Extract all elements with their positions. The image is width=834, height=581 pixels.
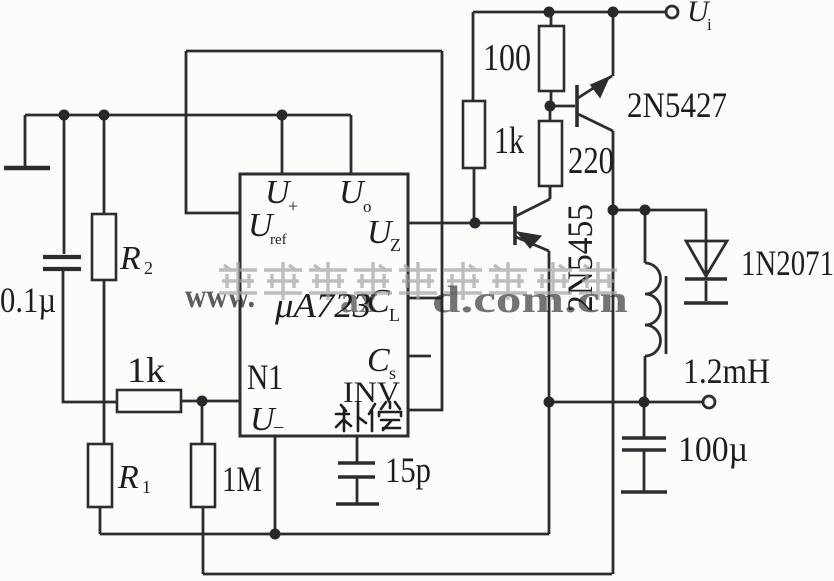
wire node to 1M	[201, 401, 204, 444]
resistor 1M	[191, 444, 215, 507]
wire CL stub	[408, 297, 442, 300]
wire output rail	[549, 401, 702, 404]
capacitor 0.1u	[63, 115, 66, 254]
transistor Q1 2N5427	[575, 85, 579, 127]
svg-text:100µ: 100µ	[678, 429, 748, 469]
junction top rail / R100	[544, 7, 555, 18]
wire CS stub	[408, 355, 431, 358]
svg-text:1: 1	[142, 477, 151, 497]
svg-text:www.: www.	[185, 278, 255, 315]
junction output rail / Q2 emitter	[544, 397, 555, 408]
wire top rail to Ui	[473, 11, 665, 14]
svg-text:Z: Z	[390, 235, 401, 255]
svg-text:L: L	[389, 305, 400, 325]
wire mid rail to diode	[613, 209, 707, 212]
wire Q1 collector long vertical	[612, 131, 615, 574]
node dots	[59, 7, 651, 540]
watermark	[185, 262, 628, 321]
diode 1N2071	[705, 210, 708, 279]
svg-text:2N5427: 2N5427	[627, 85, 727, 125]
resistor 220	[549, 106, 552, 121]
wire bottom rail 2	[203, 573, 612, 576]
ground	[24, 115, 27, 167]
svg-text:R: R	[119, 240, 141, 277]
svg-text:1.2mH: 1.2mH	[683, 351, 770, 391]
svg-text:U: U	[339, 174, 366, 211]
wire Uref-INV link vertical	[408, 51, 442, 410]
capacitor 15p	[356, 436, 359, 462]
svg-text:2: 2	[144, 258, 153, 278]
junction ground rail / U+ pin	[277, 110, 288, 121]
op-amp U1 box uA723	[240, 174, 408, 436]
inductor L1 1.2mH	[644, 210, 647, 263]
junction ground rail / R2	[99, 110, 110, 121]
transistor Q2 2N5455	[513, 206, 517, 245]
resistor 1k (horizontal)	[117, 390, 181, 412]
terminal output	[703, 396, 715, 408]
junction top rail / Q1 emitter	[608, 7, 619, 18]
junction box pin / rail 1	[270, 529, 281, 540]
wire R2 to R1	[103, 280, 106, 444]
svg-text:0.1µ: 0.1µ	[0, 280, 56, 320]
junction output rail / L1 bottom	[639, 397, 650, 408]
wire Q2 emitter vertical	[548, 251, 551, 534]
svg-text:ax: ax	[340, 279, 378, 321]
svg-text:100: 100	[483, 37, 531, 79]
node A 1k-1M-U- junction	[197, 396, 208, 407]
svg-text:+: +	[288, 196, 298, 216]
junction ground rail / C1	[59, 110, 70, 121]
svg-text:INV: INV	[343, 376, 400, 409]
svg-text:1N2071: 1N2071	[741, 243, 834, 283]
svg-text:d.com.cn: d.com.cn	[432, 279, 628, 321]
svg-text:ref: ref	[270, 232, 287, 248]
junction UZ line / 1k	[470, 218, 481, 229]
wire UZ pin line	[408, 222, 514, 225]
wire U+ pin drop	[281, 115, 284, 174]
resistor R2	[103, 115, 106, 214]
wire Uo pin drop	[350, 115, 353, 174]
wire top feedback line	[186, 50, 442, 53]
capacitor 100u	[643, 402, 646, 437]
svg-text:i: i	[707, 15, 712, 34]
svg-text:C: C	[367, 342, 390, 379]
transistor Q2 emitter arrow	[517, 232, 541, 248]
wire 2N5427 emitter vertical	[612, 12, 615, 76]
svg-text:220: 220	[568, 140, 614, 182]
wire 1k bottom to UZ node	[473, 168, 476, 223]
svg-text:N1: N1	[247, 357, 283, 397]
svg-text:1M: 1M	[222, 459, 262, 499]
wire base line Q1	[550, 105, 575, 108]
wire left vertical to Uref	[186, 51, 240, 213]
junction mid rail / L1 top	[640, 205, 651, 216]
junction R100 / R220 / Q1 base	[545, 101, 556, 112]
resistor R1	[88, 444, 112, 507]
wire ground rail bottom 1	[100, 533, 549, 536]
svg-text:1k: 1k	[127, 350, 165, 390]
svg-text:R: R	[117, 459, 139, 496]
transistor Q1 emitter arrow	[591, 77, 609, 97]
junction mid rail / Q1 collector line	[608, 205, 619, 216]
svg-text:1k: 1k	[494, 120, 524, 162]
terminal Ui	[666, 6, 678, 18]
svg-text:−: −	[273, 417, 284, 439]
svg-text:15p: 15p	[385, 450, 431, 490]
resistor 1k (vertical)	[463, 101, 485, 168]
label pin buchang (compensation) CJK drawn	[336, 402, 401, 431]
wire ground rail	[25, 114, 351, 117]
wire down to 1k vertical resistor	[472, 12, 475, 101]
resistor 100	[550, 12, 553, 26]
wire box bottom pin to rail 1	[274, 436, 277, 534]
